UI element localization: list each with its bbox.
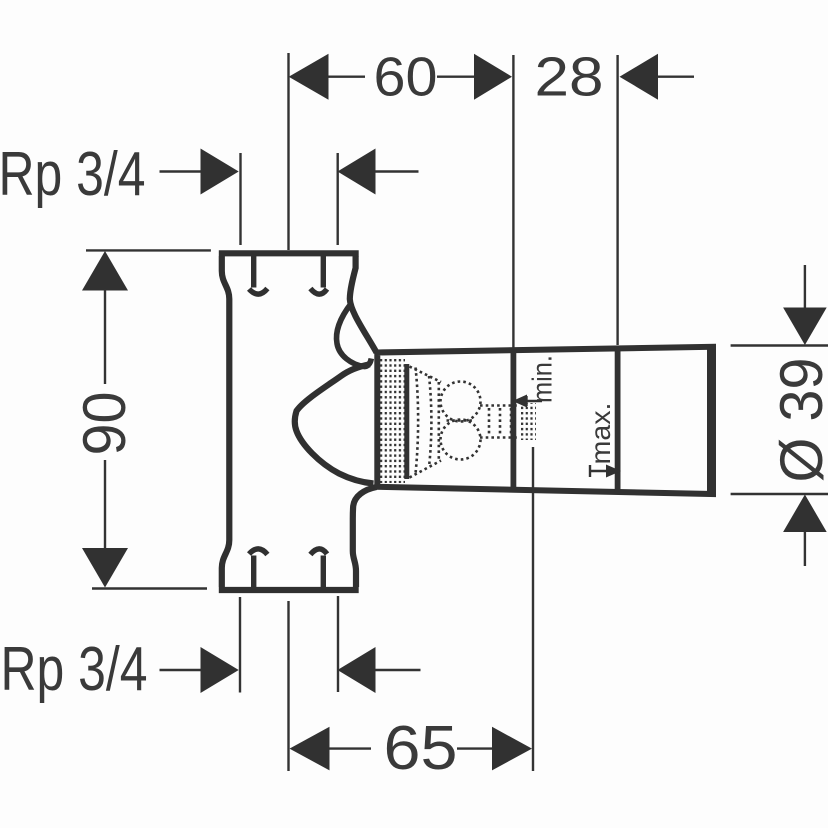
svg-text:60: 60 — [374, 46, 438, 108]
max leader tick — [589, 465, 591, 477]
Rp 3/4 bottom right arrow — [338, 647, 376, 693]
housing divider line at 60mm — [511, 349, 517, 490]
min leader line — [516, 400, 542, 402]
dimension 65 line left segment — [330, 747, 372, 749]
extension line x=617 above housing — [616, 55, 618, 345]
Rp 3/4 top arrow — [201, 149, 239, 195]
Rp 3/4 top left tick — [239, 153, 241, 245]
max leader line — [590, 470, 607, 472]
dimension 90 top extension line — [86, 249, 211, 251]
svg-text:Ø 39: Ø 39 — [768, 358, 828, 483]
cartridge dotted band — [380, 359, 405, 483]
cartridge dotted shaft ring 3 — [510, 408, 513, 435]
extension line x=513 above housing — [512, 55, 514, 349]
min leader tick — [525, 396, 527, 406]
Rp 3/4 bottom right arrow tail — [375, 669, 421, 671]
cartridge dotted cone bottom edge — [410, 461, 442, 478]
dimension 90 top arrow — [82, 251, 128, 291]
dimension 60 right arrow — [474, 54, 512, 100]
Rp 3/4 bottom right tick — [337, 596, 339, 692]
diameter 39 top stub — [804, 265, 806, 309]
svg-text:Rp 3/4: Rp 3/4 — [0, 140, 146, 209]
dimension 60 line right segment — [437, 75, 474, 77]
svg-text:max.: max. — [585, 403, 616, 465]
valve body outline left wall and caps — [219, 253, 359, 590]
dimension 65 right arrow — [492, 727, 532, 771]
valve body right wall bottom segment — [353, 487, 377, 587]
cartridge dotted collar 1 — [416, 368, 419, 474]
cartridge dotted tip cluster — [519, 403, 536, 440]
max leader arrow — [606, 465, 621, 478]
cartridge flange solid line — [404, 364, 409, 479]
dimension 60 line left segment — [329, 75, 366, 77]
cartridge dotted lower ball — [441, 420, 481, 460]
svg-text:Rp 3/4: Rp 3/4 — [1, 635, 148, 704]
cartridge dotted ball spine — [437, 382, 440, 459]
min leader arrow — [513, 395, 528, 408]
Rp 3/4 top right tick — [337, 153, 339, 245]
dimension 60 left arrow — [289, 54, 329, 100]
cartridge dotted shaft top line — [480, 404, 519, 407]
svg-text:min.: min. — [527, 355, 558, 403]
top-right internal thread hook — [310, 255, 327, 294]
cartridge dotted shaft bottom line — [480, 436, 519, 439]
dimension 65 left arrow — [290, 727, 330, 771]
internal funnel curve — [295, 364, 374, 483]
extension line spindle tip — [532, 447, 534, 771]
cartridge dotted shaft ring 2 — [499, 408, 502, 435]
dimension 28 outside arrow tail — [657, 75, 694, 77]
top-left internal thread hook — [249, 255, 267, 294]
Rp 3/4 top right arrow tail — [375, 170, 419, 172]
dimension 90 bottom extension line — [92, 587, 207, 589]
dimension 90 line upper segment — [104, 289, 106, 384]
svg-text:28: 28 — [535, 46, 604, 108]
dimension 28 outside arrow — [620, 54, 659, 100]
cartridge dotted shaft ring 1 — [488, 408, 491, 435]
cartridge dotted waist line — [447, 419, 475, 422]
valve body right wall top segment — [350, 256, 377, 353]
Rp 3/4 bottom arrow — [201, 647, 239, 693]
Rp 3/4 top leader line — [160, 170, 202, 172]
extension line body center bottom — [287, 601, 289, 771]
Rp 3/4 bottom leader line — [160, 669, 202, 671]
Rp 3/4 bottom left tick — [239, 597, 241, 693]
svg-text:90: 90 — [71, 392, 138, 456]
dimension 90 bottom arrow — [82, 548, 128, 588]
cartridge dotted cone top edge — [410, 367, 442, 383]
bottom-right internal thread hook — [310, 549, 327, 588]
diameter 39 bottom extension line — [731, 493, 828, 495]
bottom-left internal thread hook — [249, 549, 267, 588]
housing divider line at 28mm — [615, 346, 621, 493]
svg-text:65: 65 — [384, 714, 458, 783]
Rp 3/4 top right arrow — [338, 149, 376, 195]
diameter 39 bottom stub — [804, 531, 806, 566]
cartridge dotted upper ball — [441, 382, 481, 422]
diameter 39 top arrow — [783, 308, 827, 346]
outlet housing trapezoid — [377, 347, 713, 494]
petal curve at outlet top — [337, 303, 372, 367]
dimension 90 line lower segment — [104, 460, 106, 549]
dimension 65 line right segment — [457, 747, 492, 749]
cartridge dotted collar 2 — [429, 376, 431, 467]
extension line body center top — [287, 53, 289, 250]
diameter 39 top extension line — [731, 344, 828, 346]
outlet housing right end cap — [707, 346, 713, 496]
diameter 39 bottom arrow — [783, 495, 827, 533]
